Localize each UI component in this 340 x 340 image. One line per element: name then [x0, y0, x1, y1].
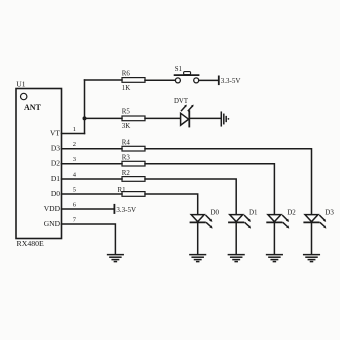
LED DVT [181, 105, 194, 127]
wire D3 LED to ground [311, 222, 313, 254]
svg-text:DVT: DVT [174, 98, 189, 105]
wire pin2 D3 row [62, 148, 123, 150]
svg-text:3.3-5V: 3.3-5V [221, 77, 241, 85]
wire DVT to right ground [189, 117, 221, 119]
wire pin6 VDD [62, 208, 115, 210]
wire pin3 D2 row [62, 163, 123, 165]
power terminal 3.3-5V (VDD) [113, 205, 115, 213]
svg-text:R1: R1 [118, 187, 127, 194]
wire pin5 D0 row [62, 193, 123, 195]
node junction R5 row [83, 116, 87, 120]
ground (right-facing, after DVT) [221, 112, 226, 126]
svg-text:U1: U1 [16, 80, 25, 89]
wire pin1 vertical up to R6/R5 rows [84, 80, 86, 134]
svg-text:2: 2 [73, 141, 76, 148]
wire R2 to D1 LED column [145, 179, 236, 214]
resistor R3 [122, 161, 145, 166]
IC U1 antenna circle [21, 93, 27, 99]
svg-text:5: 5 [73, 187, 76, 194]
svg-text:D1: D1 [51, 174, 60, 183]
resistor R5 [122, 116, 145, 121]
svg-text:R5: R5 [122, 109, 131, 116]
resistor R4 [122, 146, 145, 151]
ground (D0) [190, 255, 206, 262]
wire pin1 VT [62, 133, 85, 135]
svg-text:R3: R3 [122, 155, 131, 162]
svg-text:3K: 3K [122, 123, 130, 130]
LED D1 [229, 215, 251, 229]
ground (D3) [304, 255, 320, 262]
svg-text:RX480E: RX480E [17, 239, 45, 248]
wire D2 LED to ground [273, 222, 275, 254]
wire D1 LED to ground [235, 222, 237, 254]
svg-text:R6: R6 [122, 70, 131, 77]
ground (D1) [228, 255, 244, 262]
svg-text:3.3-5V: 3.3-5V [116, 206, 136, 214]
wire R5 row left [85, 117, 123, 119]
ground (left, IC GND) [108, 255, 124, 262]
wire R3 to D2 LED column [145, 164, 274, 215]
svg-text:D2: D2 [51, 159, 60, 168]
svg-text:D1: D1 [249, 209, 258, 217]
resistor R1 [122, 192, 145, 197]
LED D3 [304, 215, 326, 229]
wire R6 row left [85, 79, 123, 81]
svg-text:S1: S1 [175, 66, 182, 73]
svg-text:VDD: VDD [44, 204, 61, 213]
svg-text:VT: VT [50, 128, 60, 137]
svg-text:D0: D0 [211, 209, 220, 217]
LED D0 [191, 215, 213, 229]
wire R6 to S1 [145, 79, 175, 81]
wire pin4 D1 row [62, 178, 123, 180]
svg-text:R4: R4 [122, 140, 131, 147]
wire D0 LED to ground [197, 222, 199, 254]
svg-text:1: 1 [73, 126, 76, 133]
svg-text:D3: D3 [51, 144, 60, 153]
LED D2 [267, 215, 289, 229]
svg-text:ANT: ANT [24, 103, 42, 112]
switch S1 [175, 72, 199, 83]
svg-text:D2: D2 [287, 209, 296, 217]
svg-text:D0: D0 [51, 189, 60, 198]
wire R4 to D3 LED column [145, 149, 312, 215]
svg-text:1K: 1K [122, 85, 130, 92]
IC U1 RX480E body [16, 89, 62, 239]
ground (D2) [267, 255, 283, 262]
wire pin7 GND [62, 224, 116, 254]
resistor R2 [122, 177, 145, 182]
svg-text:3: 3 [73, 156, 76, 163]
svg-text:D3: D3 [325, 209, 334, 217]
resistor R6 [122, 78, 145, 83]
svg-text:R2: R2 [122, 170, 131, 177]
wire R5 to LED DVT [145, 117, 181, 119]
svg-text:GND: GND [44, 219, 61, 228]
power terminal 3.3-5V (top) [218, 76, 220, 84]
wire R1 to D0 LED column [145, 194, 198, 214]
wire S1 to power terminal [199, 79, 219, 81]
